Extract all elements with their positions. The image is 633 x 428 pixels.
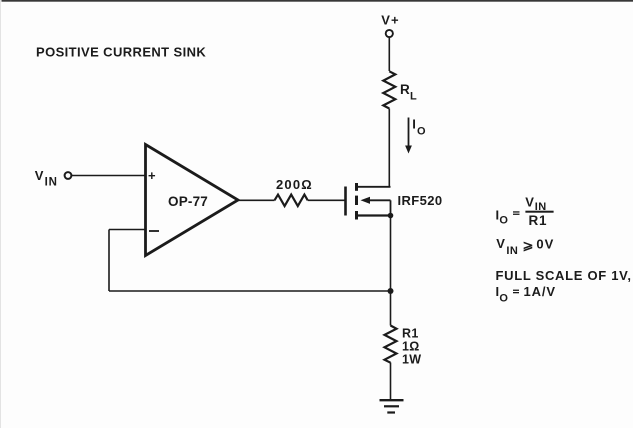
svg-text:FULL SCALE OF 1V,: FULL SCALE OF 1V, xyxy=(496,268,632,283)
wire op-amp output xyxy=(238,199,275,201)
channel segment source xyxy=(355,211,358,220)
wire source to node A xyxy=(390,216,392,292)
svg-text:L: L xyxy=(410,91,417,103)
svg-text:O: O xyxy=(499,215,508,227)
terminal V+ xyxy=(386,30,393,37)
wire VIN to op-amp xyxy=(72,175,147,177)
resistor 200Ω xyxy=(275,177,313,206)
wire V+ to RL xyxy=(388,38,390,72)
current arrow IO xyxy=(405,118,412,154)
junction node A xyxy=(388,288,394,294)
svg-text:I: I xyxy=(412,117,416,132)
terminal VIN xyxy=(65,172,72,179)
svg-text:V+: V+ xyxy=(381,13,399,28)
svg-text:POSITIVE CURRENT SINK: POSITIVE CURRENT SINK xyxy=(36,45,206,60)
svg-text:1Ω: 1Ω xyxy=(402,340,420,354)
ground xyxy=(380,400,404,412)
op-amp U1 OP-77 xyxy=(146,145,239,256)
wire RL to drain xyxy=(388,109,390,188)
equation IO = VIN/R1 xyxy=(496,195,554,228)
channel segment drain xyxy=(355,183,358,191)
resistor RL xyxy=(383,71,417,108)
wire R1 to ground xyxy=(390,363,392,401)
wire 200Ω to gate xyxy=(308,199,345,201)
svg-text:+: + xyxy=(148,168,156,183)
label IO xyxy=(412,117,426,138)
source junction dot xyxy=(388,213,394,219)
equation IO = 1A/V xyxy=(496,284,557,305)
gate bar xyxy=(344,187,347,216)
wire node A to R1 xyxy=(390,291,392,326)
left scan edge xyxy=(0,0,1,428)
svg-text:O: O xyxy=(499,293,508,305)
top border bar xyxy=(2,0,633,2)
svg-text:R: R xyxy=(400,82,410,97)
svg-text:0V: 0V xyxy=(536,237,554,252)
body to source wire xyxy=(390,200,392,215)
svg-text:O: O xyxy=(417,126,426,138)
svg-text:V: V xyxy=(35,168,44,183)
svg-text:R1: R1 xyxy=(529,213,548,228)
svg-text:1A/V: 1A/V xyxy=(524,284,557,299)
body arrow xyxy=(369,199,391,201)
feedback wire bottom xyxy=(109,290,391,292)
svg-text:IN: IN xyxy=(45,177,58,189)
feedback wire inverting input xyxy=(109,229,146,231)
channel segment body xyxy=(355,196,358,205)
svg-text:1W: 1W xyxy=(402,353,421,367)
svg-text:200Ω: 200Ω xyxy=(276,177,313,192)
node VIN label xyxy=(35,168,58,189)
equation VIN >= 0V xyxy=(496,236,554,257)
svg-text:OP-77: OP-77 xyxy=(168,194,208,209)
svg-text:R1: R1 xyxy=(402,327,419,341)
resistor R1 xyxy=(385,326,422,367)
svg-text:⩾: ⩾ xyxy=(523,238,534,253)
transistor Q1 IRF520 xyxy=(344,183,393,220)
feedback wire vertical xyxy=(108,230,110,292)
svg-text:V: V xyxy=(496,236,505,251)
drain connection xyxy=(357,186,391,188)
svg-text:IN: IN xyxy=(506,245,518,257)
svg-text:IRF520: IRF520 xyxy=(398,193,443,208)
source connection xyxy=(357,214,391,216)
svg-text:V: V xyxy=(525,195,534,210)
